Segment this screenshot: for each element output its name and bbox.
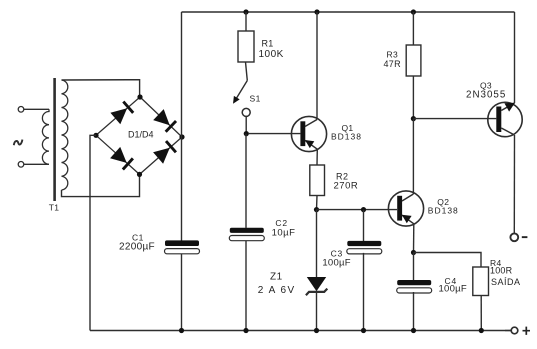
resistor R2	[310, 165, 325, 196]
transistor Q2 body	[388, 191, 423, 226]
transistor Q1 collector lead inside	[305, 120, 317, 127]
node top rail junction R3	[411, 9, 416, 14]
transistor Q3 body	[488, 102, 522, 136]
wire node B to Q2 base	[317, 209, 398, 211]
transformer T1 core	[53, 78, 56, 201]
wire Q1 emitter to R2	[316, 149, 318, 165]
transistor Q1 emitter lead inside	[305, 141, 317, 150]
node bridge plus (right vertex)	[179, 134, 184, 139]
capacitor C1	[165, 240, 200, 253]
svg-text:BD138: BD138	[428, 205, 459, 215]
wire R4 bottom lead	[480, 296, 482, 331]
wire C4 top lead	[413, 253, 415, 281]
svg-text:BD138: BD138	[331, 131, 362, 141]
svg-text:2200µF: 2200µF	[119, 242, 155, 253]
node Z1 bottom rail junction	[314, 328, 319, 333]
svg-text:10µF: 10µF	[272, 228, 296, 239]
svg-text:S1: S1	[250, 93, 261, 103]
wire bridge plus / +V riser (through C1)	[181, 12, 183, 241]
diode bridge D4 (bottom vertex to right vertex)	[140, 137, 183, 174]
node B (R2 / Z1 / Q2 base)	[314, 207, 319, 212]
svg-text:T1: T1	[49, 202, 60, 212]
node C1 bottom rail junction	[179, 328, 184, 333]
wire secondary bottom to bridge AC bottom	[62, 174, 140, 196]
svg-text:100R: 100R	[490, 266, 513, 276]
svg-text:2 A 6V: 2 A 6V	[258, 285, 296, 296]
node C (R3 / Q2 collector / Q3 base)	[411, 116, 416, 121]
wire input top lead	[24, 108, 49, 110]
label plus sign	[523, 327, 531, 335]
transistor Q3 emitter lead inside	[501, 103, 514, 111]
resistor R4	[473, 267, 489, 296]
transformer T1 secondary winding	[62, 80, 68, 190]
transistor Q2 emitter arrow (PNP)	[402, 215, 412, 224]
wire node A to Q1 base	[249, 133, 301, 135]
transistor Q2 base bar	[397, 196, 402, 221]
label minus sign	[522, 236, 528, 238]
wire Z1 to bottom rail	[316, 292, 318, 331]
transistor Q3 emitter arrow (NPN, points out)	[504, 103, 515, 112]
transformer T1 primary winding	[42, 109, 49, 164]
wire top rail to Q3 emitter	[514, 12, 516, 103]
capacitor C3	[347, 241, 382, 254]
transistor Q1 body	[291, 116, 326, 151]
svg-text:C2: C2	[275, 218, 287, 228]
wire bottom rail to plus terminal stub	[505, 330, 511, 332]
wire Q2 emitter down	[413, 224, 415, 253]
terminal input bottom	[18, 162, 24, 168]
svg-text:47R: 47R	[384, 59, 402, 69]
svg-text:D1/D4: D1/D4	[128, 129, 154, 139]
resistor R1	[238, 31, 254, 62]
wire bridge minus to bottom rail	[90, 135, 96, 330]
wire top positive rail (node +V unreg)	[182, 11, 515, 13]
wire R1 top lead	[245, 12, 247, 31]
terminal minus	[510, 233, 518, 241]
node C3 junction	[361, 207, 366, 212]
node C3 bottom rail junction	[361, 328, 366, 333]
transistor Q1 emitter arrow (PNP)	[305, 140, 314, 148]
svg-text:2N3055: 2N3055	[466, 90, 506, 101]
switch S1 blade	[235, 81, 248, 102]
transistor Q2 emitter lead inside	[402, 215, 414, 224]
capacitor C4	[397, 280, 432, 293]
svg-text:R1: R1	[262, 39, 274, 49]
wire Q1 collector riser	[316, 12, 318, 120]
wire Q3 collector to minus terminal	[513, 135, 515, 233]
wire node C to Q3 base	[413, 118, 496, 120]
wire input bottom lead	[24, 163, 49, 165]
node bridge AC bottom	[137, 172, 142, 177]
svg-text:100K: 100K	[259, 49, 284, 60]
wire node C down to Q2 collector	[412, 119, 414, 194]
node D (Q2 emitter / C4 / R4)	[411, 250, 416, 255]
wire R3 bottom lead	[412, 76, 414, 119]
terminal input top	[18, 107, 24, 113]
switch S1 contact	[242, 108, 250, 116]
svg-text:100µF: 100µF	[439, 284, 467, 295]
wire C3 top lead	[363, 210, 365, 242]
diode bridge D3 (left vertex to bottom vertex)	[96, 135, 140, 174]
node C4 bottom rail junction	[411, 328, 416, 333]
wire node D to R4	[414, 253, 482, 268]
wire secondary top to bridge AC top	[62, 80, 140, 97]
wire node A down to C2	[245, 134, 247, 228]
node C2 bottom rail junction	[243, 328, 248, 333]
wire C2 bottom lead	[245, 239, 247, 330]
wire C4 bottom lead	[413, 292, 415, 331]
resistor R3	[406, 45, 421, 76]
svg-text:100µF: 100µF	[322, 258, 350, 269]
transistor Q3 collector lead inside	[501, 128, 514, 135]
node bridge minus (left vertex)	[93, 133, 98, 138]
zener Z1 triangle	[307, 277, 326, 291]
node top rail junction R1	[243, 9, 248, 14]
wire C1 negative lead	[181, 254, 183, 331]
svg-text:SAÍDA: SAÍDA	[491, 277, 521, 287]
node R4 bottom rail junction	[479, 328, 484, 333]
transistor Q3 base bar	[496, 107, 501, 133]
diode bridge D1 (left vertex to top vertex)	[96, 97, 140, 135]
transistor Q2 collector lead inside	[402, 194, 413, 201]
node A (S1 / C2 / Q1 base)	[244, 131, 249, 136]
wire R2 bottom lead	[316, 196, 319, 210]
capacitor C2	[229, 228, 264, 241]
svg-text:Z1: Z1	[270, 272, 283, 283]
wire bottom rail (node 0V)	[90, 330, 512, 332]
label AC mains symbol	[14, 140, 23, 146]
terminal plus	[511, 327, 518, 334]
svg-text:R3: R3	[387, 49, 398, 59]
wire R3 top lead	[412, 12, 414, 45]
switch S1 blade arrowhead	[233, 96, 240, 104]
node top rail junction Q1	[314, 9, 319, 14]
zener Z1 cathode bar	[306, 289, 327, 296]
transistor Q1 base bar	[300, 121, 305, 146]
node bridge AC top	[137, 94, 142, 99]
wire S1 to node A	[245, 116, 247, 133]
wire node B down to Z1	[316, 210, 318, 277]
wire C3 bottom lead	[363, 253, 365, 331]
wire R1 bottom lead	[246, 62, 248, 81]
diode bridge D2 (top vertex to right vertex)	[140, 97, 182, 137]
svg-text:270R: 270R	[334, 181, 359, 192]
